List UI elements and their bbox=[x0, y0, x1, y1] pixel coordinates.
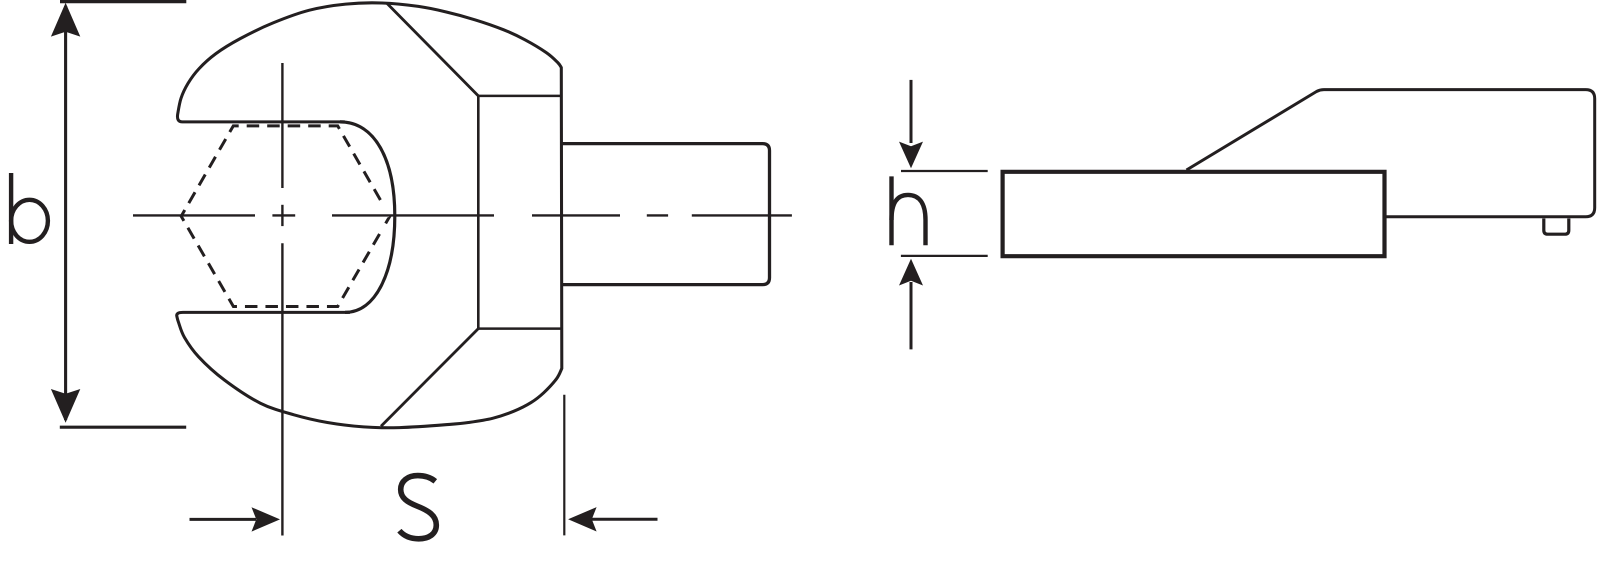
collar bottom edge bbox=[478, 327, 562, 330]
arrowhead b top bbox=[51, 3, 80, 37]
dimension b: bottom extension line bbox=[60, 426, 186, 429]
letter h bbox=[889, 176, 893, 245]
chamfer diagonal bottom bbox=[381, 329, 478, 427]
hexagon (hidden nut, dashed) bbox=[181, 126, 390, 307]
horizontal center line bbox=[133, 214, 792, 216]
wrench head outer outline (front view) bbox=[177, 3, 562, 428]
dimension b: top extension line bbox=[60, 0, 186, 3]
side view: head outline bbox=[1187, 90, 1595, 217]
chamfer diagonal top bbox=[387, 3, 478, 96]
dimension S: right extension line bbox=[563, 395, 565, 536]
side view: release button tab bbox=[1544, 219, 1569, 235]
dimension h: bottom extension line bbox=[901, 255, 988, 257]
dimension b: dimension line bbox=[64, 6, 67, 420]
arrowhead h top (down) bbox=[899, 142, 923, 169]
collar left edge bbox=[477, 96, 480, 329]
arrowhead b bottom bbox=[51, 389, 80, 423]
dimension h: top extension line bbox=[901, 170, 988, 172]
jaw root curve bbox=[340, 122, 395, 313]
vertical center line bbox=[281, 63, 283, 536]
arrowhead S left bbox=[252, 507, 281, 531]
dimension h: bottom arrow shaft bbox=[910, 282, 913, 349]
side view: blade rectangle bbox=[1003, 172, 1385, 256]
dimension S: right arrow shaft bbox=[591, 518, 658, 521]
letter b bbox=[9, 173, 13, 244]
tang (square drive) rectangle bbox=[562, 144, 770, 285]
collar top edge bbox=[478, 95, 562, 98]
letter S bbox=[399, 476, 436, 539]
dimension h: top arrow shaft bbox=[910, 80, 913, 143]
dimension S: left arrow shaft bbox=[190, 518, 257, 521]
arrowhead h bottom (up) bbox=[899, 259, 923, 286]
arrowhead S right bbox=[568, 507, 597, 531]
